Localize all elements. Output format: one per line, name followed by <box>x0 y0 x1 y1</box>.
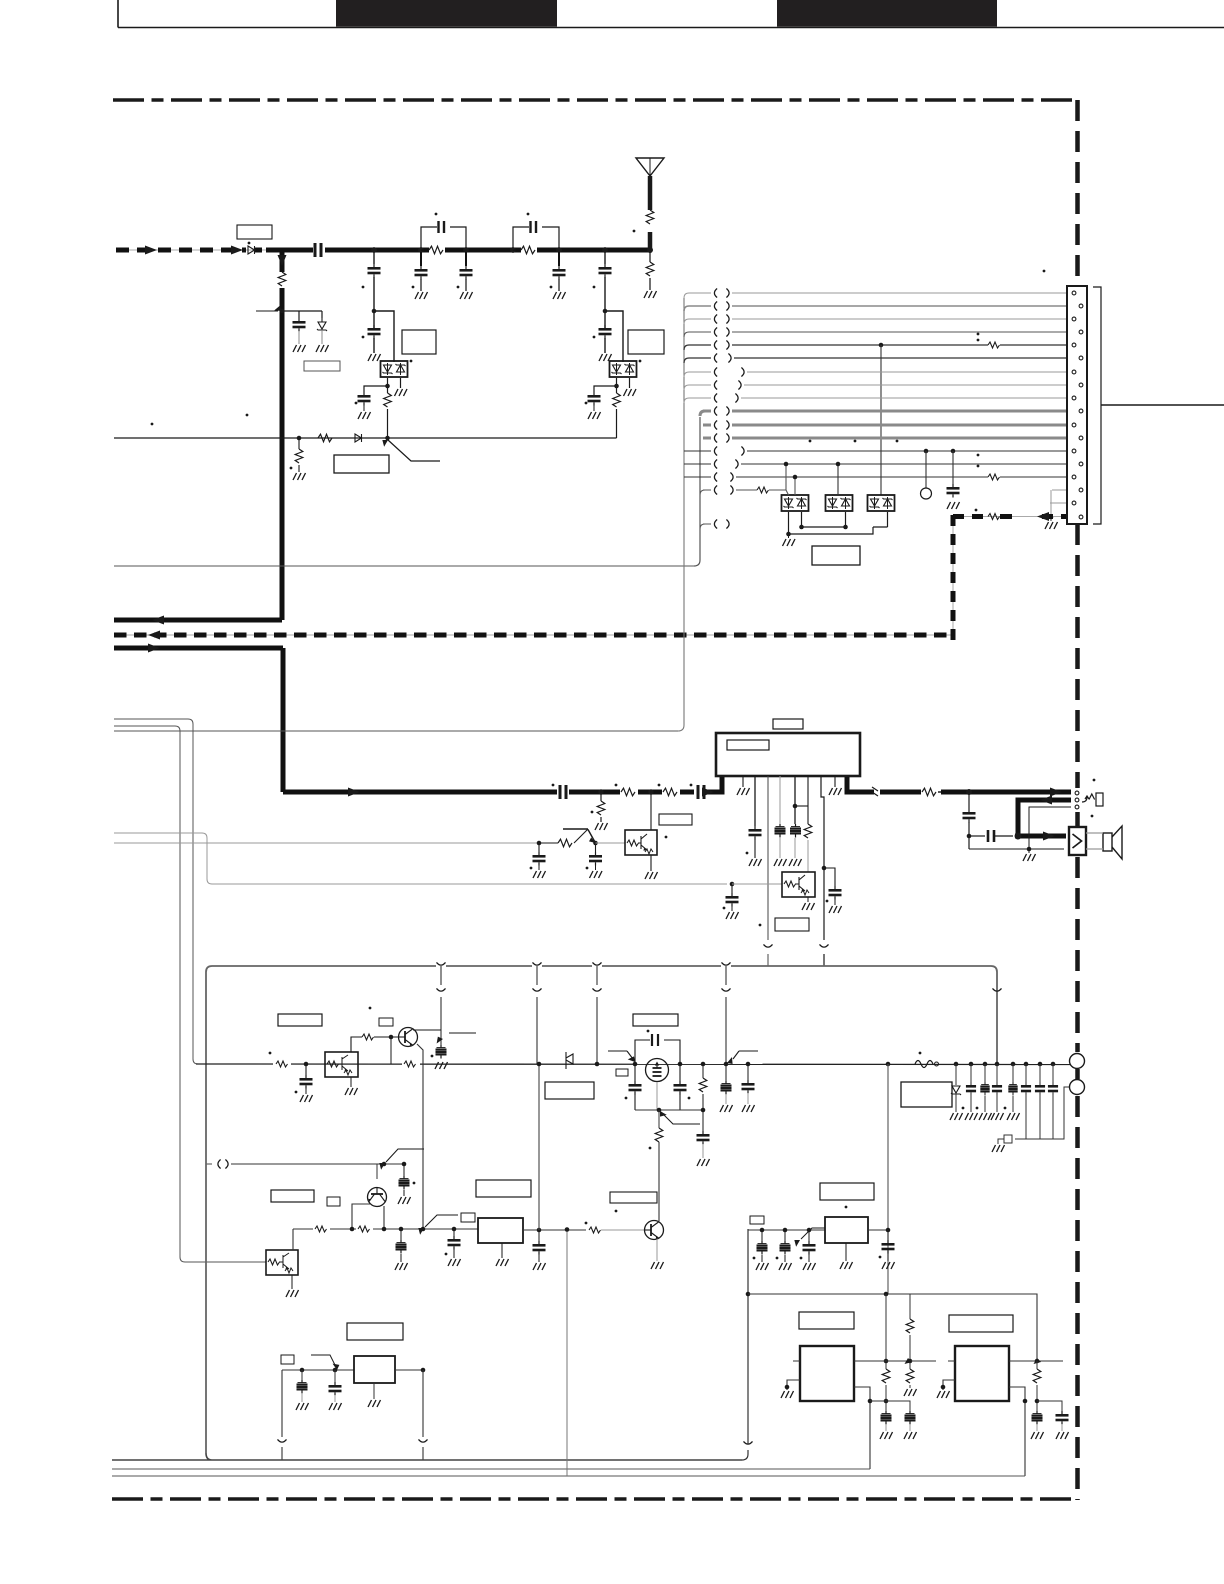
ground stage2 <box>368 354 381 361</box>
node bus junction x605 <box>602 247 608 253</box>
wire thick into IC pin1 <box>707 777 722 792</box>
IC U2 pin3 cap <box>746 776 762 866</box>
capacitor C19 series to speaker <box>969 830 1013 842</box>
digital transistor box Q3 <box>782 872 815 897</box>
node speaker junction <box>1015 833 1022 840</box>
IC U5 body <box>800 1346 854 1401</box>
node fet left junction <box>633 1062 638 1067</box>
capacitor C18 audio out coupling <box>963 792 976 849</box>
wire dashed bus y635 <box>114 631 953 640</box>
antenna ANT1 <box>636 158 664 250</box>
node audio out junction <box>966 789 972 795</box>
digital transistor box Q4 <box>325 1052 358 1077</box>
ground bus C6 <box>553 292 566 299</box>
wire x886 chain <box>882 1294 890 1411</box>
capacitor C25 bias <box>398 1164 415 1204</box>
node Q5 base junction <box>374 1035 399 1040</box>
label box L6 below diodes <box>812 546 860 565</box>
IC U2 pin5 electrolytic <box>774 776 787 866</box>
zener diode ZD1 cell1 <box>317 318 327 344</box>
label box L14 above U3 <box>476 1180 531 1197</box>
board outline chain border top <box>113 98 1078 102</box>
label box L12 <box>327 1197 340 1206</box>
wire thick audio out of IC <box>847 777 1071 792</box>
wire preamp out y1229 <box>293 1228 478 1230</box>
harness row 4 <box>684 328 1078 338</box>
wire x1037-x1062 link <box>1037 1401 1062 1411</box>
capacitor C38 <box>1007 1062 1020 1120</box>
harness bundle vertical light <box>678 298 684 731</box>
capacitor C15 series audio <box>557 784 569 800</box>
wire U7 out <box>395 1369 423 1371</box>
capacitor C20 mute1 <box>530 843 546 878</box>
wire DD1 left pin down <box>364 378 388 393</box>
IC U2 pin7 resistor to Q box <box>795 776 812 872</box>
harness row 5 with resistor <box>684 333 1071 350</box>
break symbol audio out <box>872 787 878 796</box>
capacitor C35 <box>962 1062 978 1120</box>
annotation arrow x423 <box>416 1215 458 1235</box>
resistor R10 audio shunt <box>591 792 605 822</box>
wire x888 drop <box>887 1064 889 1294</box>
node junction x454 <box>452 1227 457 1232</box>
wire DD3 feeds <box>786 464 795 495</box>
harness row 2 <box>684 302 1078 312</box>
wire bias to Q6 <box>376 1164 378 1179</box>
title block rule <box>118 0 1224 28</box>
capacitor C7 cell1 <box>293 318 306 332</box>
capacitor C3 feedback over R2 <box>513 221 559 250</box>
capacitor C49 x1062 <box>1056 1411 1069 1439</box>
wire thick AGC vertical x282 <box>280 250 285 620</box>
wire Q5 collector to supply <box>413 1029 441 1031</box>
wire Q4 emitter down gnd <box>345 1077 358 1095</box>
board outline chain border right <box>1075 100 1080 286</box>
wire thin y566 <box>114 565 694 567</box>
wire x748 corner to rail <box>742 1450 748 1460</box>
wire mute2 into box <box>732 883 782 885</box>
node junction x352 <box>350 1227 355 1232</box>
wire thick RF bus <box>266 248 429 253</box>
node VT junction x387 <box>385 436 390 441</box>
wire speaker ground line <box>969 807 1071 849</box>
wire DD bottom bus <box>789 512 888 534</box>
node junction x423 <box>421 1227 426 1232</box>
node C18 bottom <box>967 834 972 839</box>
node x597 junction <box>595 1062 600 1067</box>
wire DD4 feed <box>837 464 839 495</box>
harness row 8 <box>684 381 1078 391</box>
node AGC junction y311 <box>280 309 285 314</box>
node VT junction x299 <box>297 436 302 441</box>
label box L22 above U5 <box>799 1312 854 1329</box>
title block black cell 1 <box>336 0 557 27</box>
ground bus C5 <box>460 292 473 299</box>
ground DD bus <box>783 534 796 546</box>
harness row 3 <box>684 315 1071 325</box>
speaker SP1 <box>1069 826 1122 859</box>
capacitor C27 <box>445 1229 461 1266</box>
resistor R14 mute1 base <box>539 839 572 847</box>
wire rail y1469 <box>112 1468 870 1470</box>
wire Q5 base drop resistor <box>390 1037 392 1064</box>
capacitor C44 <box>800 1230 816 1270</box>
annotation arrow x726 <box>726 1051 758 1066</box>
resistor R20 to Q7 <box>585 1222 645 1236</box>
transistor Q5 <box>399 1028 418 1047</box>
node x785 junction <box>783 1228 788 1233</box>
resistor R13 audio out <box>921 786 944 798</box>
node pin8 branch <box>822 866 827 871</box>
wire thick down x283 to amp <box>281 648 286 792</box>
ground mute1 box <box>645 872 658 879</box>
annotation arrow fet bottom <box>657 1110 700 1124</box>
harness row 17 <box>700 520 729 530</box>
resistor R17 Q5 emitter <box>402 1058 420 1070</box>
wire VT tuning line y438 <box>114 437 617 439</box>
node bus junction x559 <box>556 247 562 253</box>
node audio junction x601 <box>598 789 604 795</box>
board outline chain border bottom <box>112 1497 1078 1501</box>
node x726 junction <box>724 1062 729 1067</box>
IC U3 <box>478 1218 523 1243</box>
rail stub x537 <box>533 966 542 1064</box>
wire caps bottom rail <box>1015 1087 1070 1139</box>
resistor R12 audio series 2 <box>658 784 680 797</box>
node bus junction x466 <box>463 247 469 253</box>
lower-left input transistor box Q9 <box>266 1250 298 1275</box>
IC U2 body <box>716 733 860 776</box>
label box L10 <box>379 1018 393 1026</box>
node fet right junction <box>678 1062 683 1067</box>
node row13 testpoint <box>924 449 929 454</box>
label box L16 <box>545 1082 594 1099</box>
capacitor C22 mute2 <box>723 884 739 919</box>
label box L17 small <box>616 1069 628 1076</box>
wire thin y833 jog <box>114 833 727 884</box>
wire U4 out right <box>868 1229 888 1231</box>
resistor R18 <box>313 1223 330 1235</box>
wire thin y726 <box>114 726 266 1262</box>
node x748 junction <box>746 1062 751 1067</box>
diode D1 on input bus <box>248 242 262 254</box>
node stage2 junction <box>372 309 377 314</box>
harness row 6 <box>684 354 1078 364</box>
label box L9 <box>278 1014 322 1026</box>
IC U2 pin6 electrolytic <box>789 776 802 866</box>
headphone jack symbol <box>1082 793 1103 806</box>
node antenna bus junction <box>647 247 653 253</box>
wire U5 bottom-right drop <box>854 1387 870 1469</box>
capacitor C8 stage2 upper <box>368 264 381 278</box>
annotation arrow regulator <box>311 1355 341 1371</box>
wire thick in y648 <box>114 644 283 653</box>
node Q1 emitter junction <box>593 841 598 846</box>
pin circles audio right <box>1075 791 1079 795</box>
harness row 10 thick <box>700 407 1078 417</box>
ground C7 <box>293 345 306 352</box>
annotation arrow VT <box>380 437 440 461</box>
annotation arrow bias <box>377 1149 424 1170</box>
wire mid supply x748 vertical <box>747 1229 749 1444</box>
DC jack circle 1 <box>1070 1054 1085 1069</box>
connector CN1 pins <box>1072 291 1083 519</box>
capacitor C48 x1037 <box>1031 1411 1044 1439</box>
annotation arrow supply stub <box>435 1033 476 1043</box>
node row13 cap <box>951 449 956 454</box>
MOSFET Q8 <box>646 1059 669 1082</box>
arrow down on AGC vertical <box>278 255 287 266</box>
capacitor C2 feedback over R1 <box>421 221 466 250</box>
resistor R5 in AGC vertical <box>278 272 286 286</box>
IC U7 regulator <box>354 1356 395 1383</box>
node x1037 junction <box>1035 1359 1040 1364</box>
label box L25 small <box>281 1355 294 1364</box>
transistor Q6 <box>368 1188 387 1207</box>
resistor R1 on bus 421-466 <box>421 246 466 254</box>
resistor R22 <box>699 1064 707 1112</box>
capacitor C29 fet bridge top <box>635 1034 680 1064</box>
capacitor C47 x910 <box>904 1411 917 1439</box>
ground stage3 <box>599 354 612 361</box>
wire DD2 right pin ground <box>624 378 637 396</box>
capacitor C46 x886 <box>880 1411 893 1439</box>
ground R10 <box>595 823 608 830</box>
test point circle TP1 <box>921 451 932 499</box>
capacitor C23 <box>295 1064 313 1102</box>
wire Q7 emitter gnd <box>651 1239 664 1269</box>
capacitor C11 stage3 upper <box>599 264 612 278</box>
harness row 14 <box>684 454 1071 469</box>
title block black cell 2 <box>777 0 997 27</box>
wire Q5 output long drop <box>417 1044 423 1229</box>
node fet bottom junction <box>657 1108 662 1113</box>
resistor R15 <box>269 1052 291 1070</box>
node x888 junction <box>886 1062 891 1067</box>
resistor R24 x1037 <box>1033 1361 1041 1411</box>
capacitor C9 stage2 lower <box>368 325 381 339</box>
rail hook breaks <box>437 962 446 965</box>
harness row 11 thick <box>703 421 1071 430</box>
capacitor C28 <box>533 1230 546 1270</box>
wire mute1 collector feed <box>650 792 652 871</box>
ground mute2 box <box>802 897 815 910</box>
node bus junction x513 <box>510 247 516 253</box>
wire bracket out y405 <box>1101 404 1224 406</box>
capacitor C5 bus decoupling x466 <box>457 252 473 291</box>
capacitor C14 row13 <box>947 451 960 509</box>
wire supply x539 drop <box>538 1064 540 1230</box>
node audio junction x651 <box>648 789 654 795</box>
capacitor C40 <box>1035 1062 1045 1139</box>
harness row 13 <box>684 447 1071 456</box>
wire DD2 left pin down <box>594 378 617 393</box>
label box U2 name <box>773 719 803 729</box>
wire U4 gnd <box>840 1243 853 1269</box>
node mute1 input junction <box>537 841 542 846</box>
ground ZD1 <box>316 345 329 352</box>
wire rail right vertical x567 <box>565 1227 570 1476</box>
harness row 16 resistor feed <box>700 486 786 496</box>
resistor R19 <box>356 1223 373 1235</box>
ground bus C4 <box>415 292 428 299</box>
capacitor C36 <box>976 1062 992 1120</box>
capacitor C51 <box>329 1368 342 1410</box>
label box L18 above fet <box>633 1014 678 1026</box>
capacitor C31 fet right <box>674 1064 691 1110</box>
node x809 junction <box>807 1228 812 1233</box>
wire Q7 collector chain up <box>658 1142 660 1221</box>
wire U6 bottom-right drop <box>1009 1387 1025 1476</box>
wire Q9 collector up to y1229 <box>292 1229 294 1250</box>
node junction x401 <box>399 1227 404 1232</box>
resistor R7 varactor feed 2 <box>613 393 621 407</box>
capacitor C10 <box>358 392 371 406</box>
resistor R8 VT shunt <box>290 438 303 472</box>
node junction x384 <box>382 1227 387 1232</box>
wire x282 down <box>278 1370 287 1460</box>
wire stage2 vertical <box>374 252 394 362</box>
wire x910 chain <box>906 1294 914 1363</box>
wire dashed RF input bus <box>116 246 280 255</box>
wire U3 gnd pin <box>496 1243 509 1266</box>
capacitor C41 <box>1048 1062 1058 1139</box>
node bias junction <box>382 1162 387 1167</box>
IC U2 pin4 long drop to rail <box>764 776 773 966</box>
capacitor C39 <box>1021 1062 1031 1139</box>
capacitor C21 mute1 <box>586 843 602 878</box>
capacitor C1 series on bus <box>313 243 325 257</box>
annotation arrow into AGC junction <box>256 305 283 313</box>
dual diode DD2 <box>610 361 637 377</box>
resistor R21 fet source <box>649 1110 663 1149</box>
resistor R23 x910 lower <box>904 1361 917 1396</box>
harness bundle vertical dark <box>694 417 700 566</box>
capacitor C42 <box>753 1230 769 1270</box>
resistor R2 on bus 513-559 <box>513 246 559 254</box>
wire Q6 legs <box>352 1204 384 1229</box>
break flag symbol <box>566 1052 573 1069</box>
ferrite bead FB1 <box>915 1052 939 1068</box>
harness row 9 <box>684 394 1071 404</box>
label box U2 inner <box>727 740 769 750</box>
label box L1 <box>237 225 272 239</box>
label box L24 <box>347 1323 403 1340</box>
wire fet bottom rail <box>635 1109 703 1111</box>
capacitor C26 <box>395 1229 408 1270</box>
hook on rail right vertical <box>993 988 1002 991</box>
label box L8 below Q3 <box>775 918 809 931</box>
harness row 1 <box>684 289 1071 299</box>
label box L5 VT <box>334 455 389 473</box>
node bias cap junction <box>402 1162 407 1167</box>
dual diode DD4 <box>826 495 853 511</box>
node bus junction x374 <box>371 247 377 253</box>
capacitor C32 <box>697 1110 710 1166</box>
dual diode DD1 <box>381 361 408 377</box>
node stage3 junction <box>603 309 608 314</box>
wire fet source down <box>656 1082 658 1110</box>
wire preout cell y1230 <box>748 1229 825 1231</box>
small connector tab <box>992 1135 1012 1152</box>
label box L21 above U4 <box>820 1183 874 1200</box>
node R15 junction <box>304 1062 309 1067</box>
wire rail y1476 <box>112 1475 1025 1477</box>
node x762 junction <box>760 1228 765 1233</box>
label box L3 <box>402 330 436 354</box>
connector bracket <box>1093 287 1101 524</box>
annotation arrow U4 <box>792 1228 829 1247</box>
label box L23 above U6 <box>949 1315 1013 1332</box>
wire y1370 row <box>282 1369 354 1371</box>
node bus junction x421 <box>418 247 424 253</box>
IC U6 body <box>955 1346 1009 1401</box>
harness row 15 with resistor <box>684 465 1078 482</box>
ground C13 <box>588 412 601 419</box>
capacitor C4 bus decoupling x421 <box>412 252 428 291</box>
capacitor C24 supply stub <box>431 1045 448 1069</box>
node dashed bus tap <box>1049 515 1054 520</box>
label box L15 <box>610 1192 657 1203</box>
wire thin y843 <box>114 842 539 844</box>
wire rail y1460 <box>112 1453 742 1460</box>
IC U2 pin8 jog to rail <box>820 776 829 966</box>
wire y1294 supply row <box>748 1294 1037 1361</box>
ground C10 <box>358 412 371 419</box>
node U3 supply junction <box>537 1228 542 1233</box>
wire thick audio in <box>283 790 694 795</box>
IC U2 pin2 gnd <box>737 776 750 795</box>
ground dashed bus tap <box>1045 517 1058 529</box>
rail stub x597 <box>593 966 602 1064</box>
zener ZD2 <box>950 1062 963 1120</box>
label box L7 mute1 <box>659 814 692 825</box>
wire U3 out <box>523 1229 586 1231</box>
capacitor C17 pin8 branch <box>824 868 842 913</box>
wire stage3 vertical <box>605 252 623 362</box>
wire supply rail top <box>206 966 997 1065</box>
resistor R6 varactor feed <box>384 393 392 407</box>
label box L19 <box>901 1082 952 1107</box>
wire thick speaker return <box>1015 800 1071 836</box>
label box L20 small <box>750 1216 764 1224</box>
resistor R9 VT series <box>318 434 332 442</box>
wire bias hook <box>206 1160 404 1169</box>
wire U7 gnd <box>368 1383 381 1407</box>
capacitor C33 electrolytic x726 <box>720 1064 733 1112</box>
capacitor C34 x748 <box>742 1064 755 1112</box>
node y1370 x302 <box>300 1368 305 1373</box>
IC U4 <box>825 1217 868 1243</box>
node x748 y1294 <box>746 1292 751 1297</box>
node x703 junction top <box>701 1062 706 1067</box>
capacitor C43 <box>776 1230 792 1270</box>
wire thin y719 <box>114 719 198 1064</box>
label box L2 <box>304 361 340 371</box>
node x886 y1294 <box>884 1292 889 1297</box>
capacitor C16 series before IC <box>690 784 707 800</box>
connector CN1 body <box>1067 286 1087 524</box>
dual diode DD5 <box>868 495 895 511</box>
harness row 12 thick <box>703 434 1078 443</box>
wire mute1 to box <box>596 842 626 844</box>
node row5 to DD5 <box>879 343 884 348</box>
wire DD5 long drop <box>880 345 882 495</box>
ground speaker line <box>1023 849 1036 861</box>
label box L13 <box>461 1213 475 1222</box>
IC U2 pin9 gnd <box>829 776 842 795</box>
capacitor C30 fet left <box>625 1064 642 1110</box>
